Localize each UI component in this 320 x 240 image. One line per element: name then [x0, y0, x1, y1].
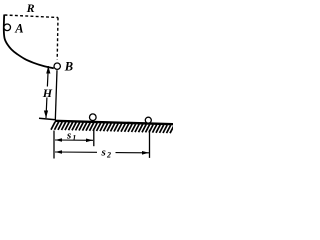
svg-text:A: A	[14, 22, 23, 36]
s1 right bar	[93, 129, 95, 147]
curved track arc	[4, 15, 54, 69]
svg-text:2: 2	[106, 151, 111, 160]
dashed radius line vertical	[56, 18, 59, 60]
H arrow up	[46, 66, 50, 74]
s2 left arrow	[55, 150, 62, 154]
svg-text:H: H	[42, 86, 53, 100]
s2 right bar	[149, 130, 151, 158]
s2 right arrow	[142, 151, 149, 155]
s2 measure line right part	[116, 152, 150, 154]
s1 right arrow	[86, 139, 93, 143]
wall edge line below B	[55, 70, 57, 120]
svg-text:B: B	[64, 60, 73, 74]
ground thick line	[55, 121, 173, 124]
H arrow down	[44, 111, 48, 119]
ball A	[4, 24, 11, 31]
ground hatching	[51, 122, 174, 134]
svg-text:R: R	[26, 1, 35, 15]
H label backing	[43, 87, 53, 98]
s1 measure line	[55, 139, 93, 141]
s2 measure line left part	[55, 151, 97, 153]
ball B	[54, 63, 60, 69]
svg-text:s: s	[66, 130, 71, 142]
s1 s2 left bar	[53, 131, 55, 159]
s1 left arrow	[55, 138, 62, 142]
ball 2 on ground	[145, 117, 151, 123]
base line left of wall	[39, 118, 56, 120]
svg-text:1: 1	[72, 133, 76, 142]
H measure line with arrows	[46, 66, 48, 118]
dashed radius line horizontal	[5, 15, 59, 18]
svg-text:s: s	[101, 147, 106, 159]
ball 1 on ground	[90, 114, 97, 121]
